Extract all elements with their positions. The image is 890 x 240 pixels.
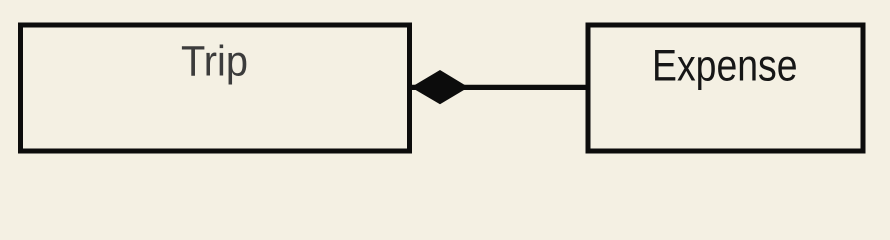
- class box Expense: [588, 25, 863, 151]
- composition diamond: [411, 70, 469, 104]
- wire: association line from diamond to Expense box: [412, 85, 588, 90]
- svg-text:Expense: Expense: [652, 42, 798, 91]
- class box Trip: [21, 25, 410, 151]
- svg-text:Trip: Trip: [181, 39, 248, 86]
